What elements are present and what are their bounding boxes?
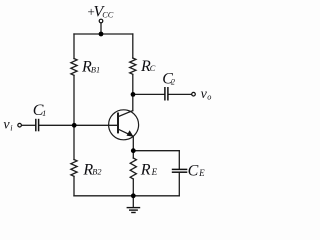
svg-text:CC: CC xyxy=(102,10,114,19)
svg-text:B2: B2 xyxy=(92,168,101,177)
svg-text:1: 1 xyxy=(42,109,46,118)
svg-text:E: E xyxy=(151,167,158,177)
svg-text:R: R xyxy=(140,162,151,179)
svg-text:C: C xyxy=(150,64,156,73)
svg-text:2: 2 xyxy=(171,78,175,87)
svg-text:B1: B1 xyxy=(91,66,100,75)
svg-text:E: E xyxy=(198,168,205,178)
svg-text:C: C xyxy=(188,162,199,179)
svg-text:o: o xyxy=(207,93,211,102)
